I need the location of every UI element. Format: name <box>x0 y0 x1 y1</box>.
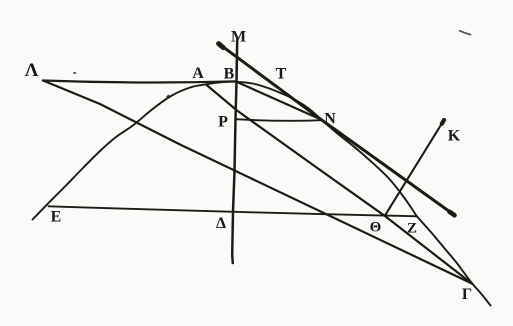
node blob start of tangent <box>219 44 224 48</box>
svg-text:P: P <box>218 114 228 131</box>
svg-text:K: K <box>448 128 461 145</box>
svg-text:Z: Z <box>407 221 417 237</box>
svg-text:E: E <box>51 209 62 226</box>
wire line A-Theta-Gamma <box>206 85 472 284</box>
node blob top of K line <box>442 120 444 124</box>
svg-text:Λ: Λ <box>25 60 39 81</box>
wire line P-N <box>236 119 322 121</box>
small tick on curve <box>167 96 169 98</box>
svg-text:A: A <box>192 65 204 82</box>
svg-text:M: M <box>231 29 246 46</box>
svg-text:Γ: Γ <box>462 286 472 303</box>
svg-text:N: N <box>324 111 336 128</box>
wire vertical diameter M-B-P-Delta <box>232 40 237 263</box>
small dash mark top right <box>460 31 471 35</box>
svg-text:T: T <box>276 66 287 83</box>
wire base line E-Delta-Theta-Z <box>49 206 417 216</box>
wire line Lambda-Gamma (long diagonal) <box>43 81 472 284</box>
svg-text:B: B <box>224 66 235 83</box>
node blob end of tangent <box>450 212 455 216</box>
svg-text:Θ: Θ <box>370 220 382 236</box>
wire thick diagonal M-T-N (tangent) <box>219 44 455 216</box>
curve parabola E-A-B-N-Z-Gamma <box>33 82 491 306</box>
wire line Lambda-B (upper horizontal) <box>43 81 237 83</box>
wire line K-Theta <box>385 120 444 216</box>
small dot near Lambda line <box>74 72 76 74</box>
wire chord B-N <box>237 82 322 120</box>
svg-text:Δ: Δ <box>216 215 226 232</box>
